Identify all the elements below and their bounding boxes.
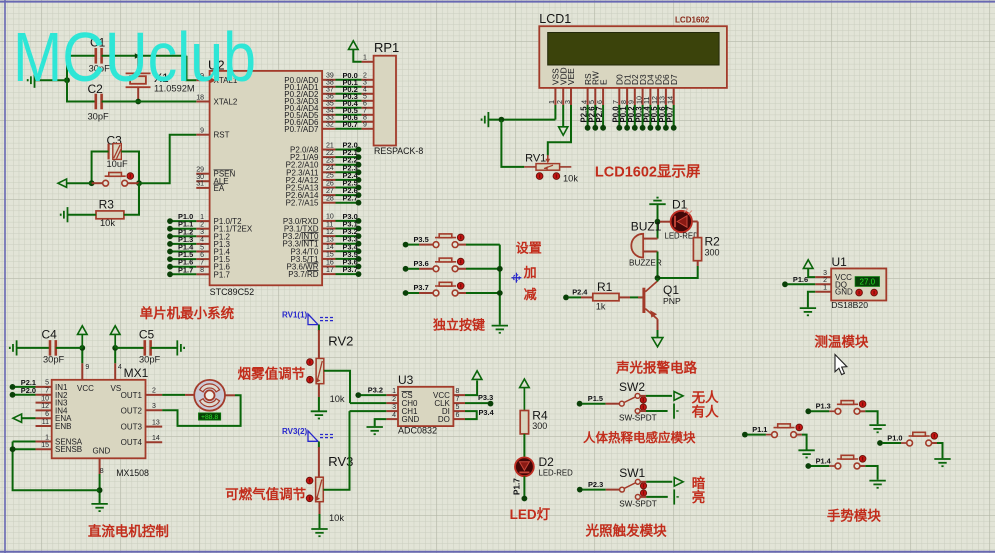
wire net P2.4 [336,179,359,181]
RV1 increment dot [553,173,560,180]
U1 pin 2 DQ stub [815,283,831,285]
wire VSS node to RV1 left [501,120,524,167]
wire P1.6 to DQ [788,283,816,285]
bar terminal (有人) [673,404,675,419]
svg-text:2: 2 [823,277,827,284]
svg-text:3: 3 [152,403,156,410]
svg-text:10k: 10k [330,394,345,404]
MX1 pin 2 OUT1 stub [146,394,163,396]
wire SENS to GND [13,442,100,491]
svg-text:GND: GND [93,447,111,456]
ground (P1.0) [934,459,950,466]
svg-text:P1.0: P1.0 [887,433,902,442]
SW1 throw1 stub [640,481,646,483]
svg-text:D2: D2 [539,455,555,469]
node P2.2 [356,162,362,168]
svg-text:3: 3 [563,100,572,104]
wire P0.5 to RP1 [336,114,362,116]
svg-text:11: 11 [42,419,49,426]
ground (crystal) [28,73,35,88]
pin 4 P1.3 stub [196,243,209,245]
wire C1 to XTAL1 corner [102,55,187,57]
button stub [932,442,938,444]
svg-text:34: 34 [326,108,334,115]
pin 22 P2.1 stub [322,156,335,158]
junction keys [497,266,503,272]
RV3 down dot [306,495,313,502]
wire P1.1 button to ground [802,435,807,450]
wire net P1.4 [170,251,196,253]
svg-text:7: 7 [456,396,460,403]
svg-text:P2.0: P2.0 [21,386,36,395]
wire R3 to reset node [124,183,139,215]
U1 pin 3 VCC stub [815,276,831,278]
wire P1.3 button to ground [865,411,877,424]
node P1.6 [167,264,173,270]
node P1.4 [167,249,173,255]
wire P0.4 to RP1 [336,107,362,109]
RP1 pin 3 stub [362,86,374,88]
wire net P1.5 [170,258,196,260]
svg-text:RST: RST [214,131,230,140]
push button [103,173,128,187]
wire buzzer to emitter node [657,252,659,279]
ground (RV2) [311,411,327,418]
wire P2.1 to IN1 [15,386,36,388]
wire keys common vertical [499,245,501,325]
wire P1.1 to button [748,434,766,436]
U1 up dot [871,289,878,296]
push button [433,282,458,296]
svg-text:LED-RED: LED-RED [539,469,574,478]
wire RP1 pin1 to VCC [353,50,361,62]
wire node up to C1 [67,56,96,80]
U3 pin 6 DO stub [453,418,465,420]
pin 36 P0.3 stub [322,100,335,102]
svg-text:P1.7: P1.7 [178,265,193,274]
node P3.0 [356,218,362,224]
svg-text:DS18B20: DS18B20 [831,300,868,310]
motor driver MX1 body [52,380,146,459]
svg-text:SW2: SW2 [619,380,645,394]
node P3.6 [356,264,362,270]
svg-text:人体热释电感应模块: 人体热释电感应模块 [583,430,696,445]
wire net P2.2 [336,164,359,166]
resistor pack RP1 body [374,56,396,146]
node P2.3 [356,169,362,175]
node P1.1 [742,432,748,438]
ground (U1) [800,308,816,315]
pin 23 P2.2 stub [322,164,335,166]
svg-text:RV2: RV2 [328,334,353,349]
wire VCC col [81,348,83,363]
resistor R3 [96,211,124,219]
node P2.7 [356,200,362,206]
svg-text:D7: D7 [669,74,679,85]
wire terminal to ENA [22,417,36,419]
wire C4 to node [56,347,83,349]
SW2 pole stub [606,403,620,405]
svg-text:9: 9 [363,122,367,129]
U3 pin 4 GND stub [386,418,398,420]
svg-text:1: 1 [45,434,49,441]
voltage probe RV1(1) [308,314,318,325]
wire SW2 throw2 [646,410,668,412]
svg-text:直流电机控制: 直流电机控制 [88,523,169,539]
svg-text:8: 8 [200,267,204,274]
svg-text:10: 10 [326,214,334,221]
wire P1.3 to button [811,410,829,412]
wire P3.5 to button [408,244,419,246]
wire top to buzzer [657,204,659,238]
svg-text:亮: 亮 [692,489,706,505]
wire net P1.2 [170,235,196,237]
svg-text:P3.4: P3.4 [479,408,495,417]
svg-text:36: 36 [326,94,334,101]
svg-text:4: 4 [392,412,396,419]
wire button to node [128,182,140,184]
pin 13 P3.3 stub [322,243,335,245]
node reset right [136,180,142,186]
MX1 pin 3 OUT2 stub [146,409,163,411]
wire P1.4 button to ground [865,466,877,480]
DC motor [194,380,225,411]
svg-text:7: 7 [363,108,367,115]
svg-text:RESPACK-8: RESPACK-8 [374,146,423,156]
svg-text:15: 15 [41,442,49,449]
svg-text:3: 3 [363,80,367,87]
toggle dot [457,283,464,290]
wire VSS horizontal [489,119,556,121]
wire LCD P0.4 [649,105,651,128]
pin 34 P0.5 stub [322,114,335,116]
RV3 up dot [306,477,313,484]
wire LCD P0.1 [626,105,628,128]
wire net P2.3 [336,171,359,173]
svg-text:VEE: VEE [566,68,576,85]
svg-text:5: 5 [363,94,367,101]
ground (U3) [367,427,383,434]
svg-text:6: 6 [45,411,49,418]
svg-text:P1.7: P1.7 [513,478,522,495]
svg-text:22: 22 [326,150,334,157]
wire P2.0 to IN2 [15,394,36,396]
svg-text:P3.7: P3.7 [414,283,429,292]
svg-text:39: 39 [326,73,334,80]
svg-text:1k: 1k [596,302,606,312]
svg-text:25: 25 [326,173,334,180]
svg-text:LCD1602: LCD1602 [675,16,710,25]
wire P0.3 to RP1 [336,100,362,102]
RP1 pin 4 stub [362,93,374,95]
power +5V arrow (VCC) [78,326,88,335]
power +5V arrow (U1) [803,260,813,269]
svg-text:10: 10 [41,395,49,402]
wire VEE to RV1 wiper [548,105,571,156]
wire node to emitter [657,278,659,282]
button stub [860,465,866,467]
RV1 decrement dot [536,173,543,180]
svg-text:ADC0832: ADC0832 [398,426,437,436]
wire LCD P2.7 [602,105,604,128]
pin 27 P2.6 stub [322,194,335,196]
push button [907,432,932,446]
svg-text:P3.7: P3.7 [343,265,358,274]
toggle dot [457,234,464,241]
node P1.7 [167,271,173,277]
wire terminal to node [67,182,92,184]
ground (C5) [177,340,184,355]
RV3 bottom stub [319,502,321,514]
RV2 up dot [307,359,314,366]
RP1 pin 9 stub [362,128,374,130]
R2 bottom stub [697,261,699,266]
svg-text:P1.6: P1.6 [793,275,808,284]
wire net P3.2 [336,235,359,237]
power +5V arrow (RP1) [349,41,359,50]
toggle dot [796,424,803,431]
node P3.3 [488,401,494,407]
node P2.6 [356,192,362,198]
svg-text:+88.8: +88.8 [201,414,218,421]
svg-text:2: 2 [200,222,204,229]
node XTAL2 junction [135,99,141,105]
MX1 pin 11 ENB stub [36,425,52,427]
svg-text:10uF: 10uF [107,159,129,169]
wire LCD P0.5 [657,105,659,128]
wire D2 to P1.7 [523,476,525,498]
motor left pin [185,394,194,396]
wire ground to R3 [68,214,97,216]
wire net P3.7 [336,273,359,275]
svg-text:28: 28 [326,196,334,203]
node P1.6 [782,281,788,287]
node SENSB [10,446,16,452]
svg-text:3: 3 [200,229,204,236]
wire VDD down [562,105,564,127]
svg-text:P2.7: P2.7 [595,106,604,122]
node P3.7 [356,271,362,277]
output terminal (无人) [674,392,683,401]
power +5V arrow (U3) [472,371,482,380]
node reset left [89,180,95,186]
svg-text:SENSB: SENSB [55,445,82,454]
svg-text:6: 6 [200,252,204,259]
svg-text:独立按键: 独立按键 [433,318,485,333]
resistor R2 [693,238,701,261]
svg-text:U3: U3 [398,373,414,387]
node P1.3 [805,408,811,414]
svg-text:P1.5: P1.5 [588,394,603,403]
MX1 pin 8 GND stub [99,458,101,474]
wire SENSA [13,441,36,443]
LED D2 [515,457,534,476]
wire ground to C4 [17,347,50,349]
wire LCD P2.6 [594,105,596,128]
power +5V arrow (LED) [520,379,530,388]
svg-text:35: 35 [326,101,334,108]
toggle dot [457,258,464,265]
toggle dot [859,456,866,463]
RV1 wiper arrow [547,155,549,162]
wire SW2 throw1 [646,395,672,397]
svg-text:38: 38 [326,80,334,87]
svg-text:RP1: RP1 [374,40,399,55]
wire button to common [466,244,500,246]
svg-text:暗: 暗 [692,475,706,491]
MX1 pin 6 ENA stub [36,417,52,419]
pin 30 ALE stub [196,180,209,182]
node P0.1 (LCD) [624,125,630,131]
svg-text:2: 2 [363,73,367,80]
wire RV3 to ground [319,514,321,528]
svg-text:声光报警电路: 声光报警电路 [615,360,697,376]
wire LCD P0.3 [642,105,644,128]
wire net P1.7 [170,273,196,275]
node P0.2 (LCD) [632,125,638,131]
svg-text:LED灯: LED灯 [510,506,551,522]
svg-text:27: 27 [326,188,334,195]
resistor R4 [520,411,528,434]
potentiometer RV1 body [536,164,560,171]
svg-text:16: 16 [326,259,334,266]
wire node to button [92,182,103,184]
svg-text:SW-SPDT: SW-SPDT [619,414,657,423]
wire P2.3 to SW1 [582,489,605,491]
svg-text:RV1: RV1 [525,153,546,165]
svg-text:可燃气值调节: 可燃气值调节 [225,486,306,502]
svg-text:P0.7: P0.7 [666,106,675,122]
capacitor [96,48,102,64]
node P3.1 [356,226,362,232]
pin 19 XTAL1 arrow [211,78,217,84]
LCD1 screen [548,33,719,66]
MX1 pin 12 IN4 stub [36,409,52,411]
wire R1 to base [630,296,643,298]
svg-text:P3.7/RD: P3.7/RD [288,270,318,279]
ground (P1.1) [798,450,814,457]
pin 18 XTAL2 stub [196,101,209,103]
ground (keys) [492,326,508,333]
pin 6 P1.5 stub [196,258,209,260]
svg-text:P2.7/A15: P2.7/A15 [286,199,319,208]
wire LCD P0.0 [618,105,620,128]
svg-text:1: 1 [392,388,396,395]
node P3.5 [356,256,362,262]
wire C2 to XTAL2 pin [102,101,197,103]
wire power to R4 [523,388,525,411]
svg-text:PNP: PNP [663,296,681,306]
U3 pin 5 DI stub [453,410,465,412]
svg-text:5: 5 [456,404,460,411]
wire power to node [81,334,83,348]
RV1 left stub [524,166,536,168]
svg-text:P3.3: P3.3 [478,393,493,402]
pin 11 P3.1 stub [322,228,335,230]
svg-text:P0.7/AD7: P0.7/AD7 [284,125,319,134]
mouse cursor [835,355,847,375]
svg-text:P1.7: P1.7 [214,270,231,279]
wire ground to node [35,79,68,81]
RV1 right stub [560,166,572,168]
svg-text:P3.5: P3.5 [414,235,429,244]
svg-text:13: 13 [152,419,160,426]
SW2 throw2 stub [640,410,646,412]
wire P1.5 to SW2 [582,403,605,405]
svg-text:P2.3: P2.3 [588,480,603,489]
svg-text:7: 7 [200,260,204,267]
button right stub [458,244,466,246]
svg-text:32: 32 [326,122,334,129]
svg-text:6: 6 [595,100,604,104]
input terminal (reset) [58,179,67,187]
pin 5 P1.4 stub [196,251,209,253]
power terminal (VDD) [559,127,568,135]
wire net P1.0 [170,220,196,222]
svg-text:3: 3 [823,270,827,277]
ground (R3) [61,207,68,222]
pin 32 P0.7 stub [322,128,335,130]
wire RV3 wiper [323,411,349,490]
buzzer top pin [643,238,657,240]
wire motor to OUT2 [162,395,240,426]
svg-text:LCD1602显示屏: LCD1602显示屏 [595,164,701,181]
pin 12 P3.2 stub [322,235,335,237]
svg-text:23: 23 [326,158,334,165]
wire net P3.5 [336,258,359,260]
capacitor [145,340,151,356]
wire P0.1 to RP1 [336,86,362,88]
wire GND down [808,292,815,308]
U1 display 27.0 [855,277,879,287]
wire collector down [657,330,659,337]
svg-text:6: 6 [363,101,367,108]
svg-text:4: 4 [200,237,204,244]
wire node down to C2 [67,80,96,101]
pin 2 P1.1 stub [196,228,209,230]
sheet border top [0,1,995,3]
push button [433,258,458,272]
node P2.3 [577,487,583,493]
LCD1 body [539,26,727,88]
node P2.1 [10,384,16,390]
node P2.5 [356,185,362,191]
ground (RV3) [311,529,327,536]
MX1 pin 5 IN1 stub [36,386,52,388]
node P2.4 [563,295,569,301]
svg-text:14: 14 [152,435,160,442]
RP1 pin 6 stub [362,107,374,109]
RV3 top stub [318,447,320,477]
wire GND pin down [375,419,387,426]
ground (C4) [10,340,17,355]
node P3.7 (keys) [403,290,409,296]
svg-text:4: 4 [118,364,122,371]
U1 down dot [856,289,863,296]
MCU U2 STC89C52 body [210,71,323,285]
SW1 pole stub [606,489,620,491]
node P3.2 (ADC) [355,392,361,398]
wire RV2 to ground [318,397,320,411]
svg-text:14: 14 [666,96,675,104]
svg-text:减: 减 [524,287,537,302]
U3 pin 7 CLK stub [453,402,465,404]
node P3.6 (keys) [403,266,409,272]
node P3.3 [356,241,362,247]
ADC U3 body [398,387,453,426]
motor right pin [225,394,235,396]
collector wire [657,319,659,330]
